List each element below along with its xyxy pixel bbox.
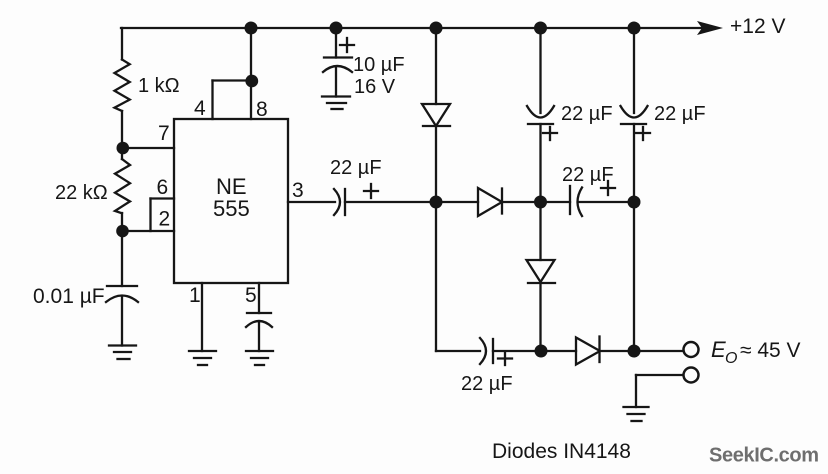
svg-text:O: O [725,350,737,367]
svg-text:0.01 µF: 0.01 µF [33,285,105,308]
svg-text:7: 7 [158,122,170,145]
svg-text:Diodes IN4148: Diodes IN4148 [492,440,631,463]
svg-text:E: E [711,337,726,362]
svg-text:5: 5 [245,284,257,307]
svg-text:555: 555 [213,196,250,221]
svg-text:2: 2 [159,208,171,231]
svg-text:22 kΩ: 22 kΩ [55,182,108,204]
svg-text:+12 V: +12 V [730,15,785,38]
svg-text:≈ 45 V: ≈ 45 V [740,339,801,362]
svg-text:4: 4 [194,97,206,120]
svg-text:16 V: 16 V [354,76,396,98]
svg-text:10 µF: 10 µF [353,54,405,76]
svg-text:22 µF: 22 µF [330,157,382,179]
svg-text:1: 1 [189,284,201,307]
svg-text:22 µF: 22 µF [562,164,614,186]
svg-text:22 µF: 22 µF [561,103,613,125]
svg-text:8: 8 [256,98,268,121]
svg-text:SeekIC.com: SeekIC.com [709,445,819,467]
svg-text:22 µF: 22 µF [461,373,513,395]
svg-text:22 µF: 22 µF [654,103,706,125]
svg-text:3: 3 [292,179,304,202]
svg-text:1 kΩ: 1 kΩ [138,75,180,97]
svg-text:6: 6 [157,176,169,199]
